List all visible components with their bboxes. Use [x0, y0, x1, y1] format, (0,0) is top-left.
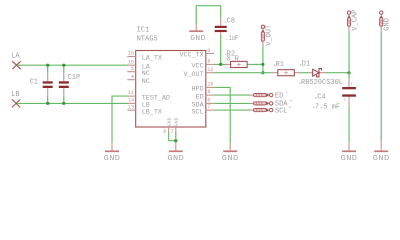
svg-text:V_OUT: V_OUT: [266, 25, 274, 46]
ground IC: [167, 143, 184, 163]
svg-text:4: 4: [131, 74, 134, 80]
svg-text:SCL: SCL: [192, 108, 204, 116]
wire C8 vertical: [196, 6, 221, 65]
svg-text:1: 1: [350, 83, 352, 87]
pin V_OUT 12: [184, 67, 215, 79]
pin VCC 9: [192, 59, 215, 71]
wire GND header vertical: [380, 32, 382, 143]
wire R2 to V_OUT link: [250, 63, 263, 65]
wire LB: [17, 102, 128, 104]
junction C8 on VCC: [219, 63, 222, 66]
svg-text:11: 11: [128, 90, 134, 96]
wire V_CAP vertical: [348, 32, 350, 73]
svg-text:V_OUT: V_OUT: [184, 71, 204, 79]
svg-text:7.5 mF: 7.5 mF: [315, 103, 340, 111]
wire IC ground pins: [169, 131, 176, 143]
pin TEST_AD 11: [127, 90, 170, 102]
svg-text:15: 15: [128, 59, 134, 65]
svg-text:C1: C1: [30, 78, 38, 86]
svg-text:0 R: 0 R: [226, 55, 239, 63]
svg-text:LA: LA: [11, 53, 20, 61]
pin header V_OUT: [261, 25, 273, 46]
wire TEST_AD to ground: [112, 96, 128, 143]
svg-text:IC1: IC1: [137, 26, 150, 34]
wire V_OUT rail: [214, 72, 271, 74]
pin header SDA: [250, 100, 292, 109]
junction C1P bottom: [62, 102, 65, 105]
junction C1 top: [46, 64, 49, 67]
junction link on VCC rail: [261, 63, 264, 66]
svg-text:V_CAP: V_CAP: [351, 10, 359, 31]
svg-text:GND: GND: [167, 155, 184, 163]
pin GND 7 bottom: [170, 117, 179, 134]
svg-text:16: 16: [128, 51, 134, 57]
pin LB 14: [127, 98, 150, 110]
pin LB_TX 13: [127, 104, 162, 116]
off-page marker LA: [12, 61, 20, 69]
svg-text:ED: ED: [275, 92, 283, 100]
pin NC 4: [127, 74, 150, 86]
wire VCC rail: [214, 63, 226, 65]
svg-text:GND: GND: [384, 18, 392, 31]
wire R1 to D1: [300, 72, 309, 74]
svg-text:6: 6: [207, 98, 210, 104]
svg-text:9: 9: [207, 59, 210, 65]
ground C4: [341, 143, 358, 163]
wire D1 to V_CAP node: [325, 72, 349, 74]
svg-text:C4: C4: [317, 94, 325, 102]
pin LA_TX 16: [127, 51, 162, 63]
svg-text:GND: GND: [104, 155, 121, 163]
junction C1P top: [62, 64, 65, 67]
pin SCL 7: [192, 104, 215, 116]
junction V_CAP node: [347, 71, 350, 74]
pin header V_CAP: [347, 10, 359, 32]
pin GND 6 bottom: [163, 117, 172, 134]
pin VCC_TX 3: [180, 48, 215, 60]
svg-text:SCL: SCL: [275, 107, 288, 115]
svg-text:GND: GND: [341, 155, 358, 163]
svg-text:ED: ED: [196, 93, 204, 101]
capacitor C4: [313, 73, 356, 143]
junction link on V_OUT rail: [261, 71, 264, 74]
net label LB: [11, 91, 19, 99]
svg-text:GND: GND: [373, 155, 390, 163]
net label LA: [11, 53, 20, 61]
wire SCL: [214, 109, 250, 111]
ground HPD: [222, 143, 239, 163]
pin SDA 6: [192, 98, 215, 110]
svg-text:GND: GND: [167, 117, 173, 126]
svg-text:6: 6: [163, 129, 166, 135]
svg-text:3: 3: [207, 48, 210, 54]
svg-text:GND: GND: [190, 35, 206, 43]
svg-text:GND: GND: [174, 117, 180, 126]
capacitor C1: [30, 65, 53, 103]
svg-text:8: 8: [207, 89, 210, 95]
svg-text:LA_TX: LA_TX: [142, 55, 162, 63]
diode D1: [299, 61, 343, 87]
svg-text:LB_TX: LB_TX: [142, 108, 162, 116]
wire SDA: [214, 102, 250, 104]
resistor R1: [271, 61, 300, 76]
pin header GND: [380, 11, 392, 32]
ground C8: [189, 24, 206, 43]
pin NC 5: [127, 66, 150, 78]
wire HPD to ground: [214, 87, 230, 142]
svg-text:VCC: VCC: [192, 63, 204, 71]
ground TEST_AD: [104, 143, 121, 163]
capacitor C1P: [59, 65, 80, 103]
op-amp U1 : IC1 NTAG5 body: [136, 26, 206, 127]
ground right column: [373, 143, 390, 163]
pin LA 15: [127, 59, 151, 71]
svg-text:10: 10: [207, 82, 213, 88]
svg-text:NTAG5: NTAG5: [137, 36, 158, 44]
resistor R2: [225, 50, 250, 67]
pin ED 8: [196, 89, 215, 101]
junction C1 bottom: [46, 102, 49, 105]
pin HPD 10: [192, 82, 215, 94]
off-page marker LB: [12, 99, 20, 107]
svg-text:12: 12: [207, 67, 213, 73]
pin header SCL: [250, 106, 291, 115]
wire V_OUT link vertical: [262, 46, 264, 73]
svg-text:2: 2: [344, 99, 346, 103]
junction IC ground: [174, 139, 177, 142]
svg-text:7: 7: [170, 129, 173, 135]
svg-text:R1: R1: [276, 61, 284, 69]
svg-text:LB: LB: [11, 91, 19, 99]
wire ED: [214, 94, 250, 96]
svg-text:C1P: C1P: [68, 74, 81, 82]
svg-text:NC: NC: [142, 78, 150, 86]
svg-text:.1uF: .1uF: [225, 35, 238, 43]
pin header ED: [250, 91, 287, 100]
svg-text:NC: NC: [142, 70, 150, 78]
capacitor C8: [215, 17, 239, 42]
svg-text:VCC_TX: VCC_TX: [180, 52, 204, 60]
wire LA: [17, 64, 128, 66]
svg-text:14: 14: [128, 98, 134, 104]
svg-text:RB520CS30L: RB520CS30L: [301, 79, 343, 87]
svg-text:7: 7: [207, 104, 210, 110]
svg-text:13: 13: [128, 104, 134, 110]
svg-text:5: 5: [131, 66, 134, 72]
svg-text:D1: D1: [302, 61, 310, 69]
svg-text:C8: C8: [227, 17, 235, 25]
svg-text:GND: GND: [222, 155, 239, 163]
